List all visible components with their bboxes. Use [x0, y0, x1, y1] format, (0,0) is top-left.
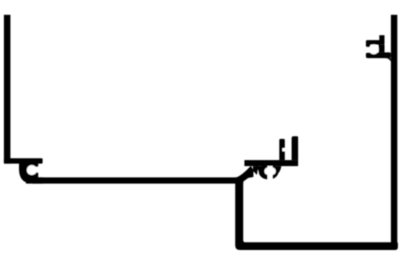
right screw port fillet — [386, 58, 391, 61]
gasket nub under platform — [253, 166, 258, 175]
right screw slot — [365, 47, 374, 52]
ring clip right flare — [276, 166, 282, 173]
right screw port lower lip — [366, 52, 391, 58]
right screw port stub — [379, 35, 384, 44]
ring mouth channel — [268, 166, 273, 181]
gasket ring clip hooks — [259, 164, 279, 179]
left screw throat — [35, 167, 39, 173]
bead channel left wall with notch — [279, 139, 285, 160]
diagonal brace with head — [237, 166, 254, 184]
bead channel right wall — [292, 136, 299, 160]
right screw cavity — [369, 44, 379, 54]
middle horizontal web — [26, 177, 243, 183]
right screw port wall — [379, 45, 385, 53]
ring cavity — [264, 167, 275, 176]
glazing platform — [244, 160, 298, 166]
left screw port body — [19, 163, 43, 184]
ring clip left flare — [256, 166, 263, 174]
right screw port upper lip — [366, 40, 385, 45]
right screw port hook — [366, 43, 370, 47]
step-down web and bottom wall — [235, 177, 398, 250]
left vertical wall — [4, 15, 10, 164]
left bottom flange — [4, 158, 43, 163]
left screw cavity — [27, 165, 37, 175]
right vertical wall — [391, 15, 397, 245]
